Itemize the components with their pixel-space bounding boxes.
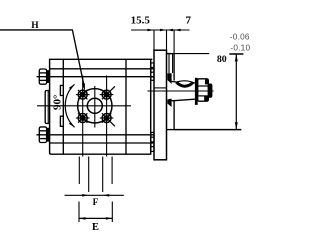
front view: vertical body lines [63,59,126,154]
bolt BR [100,113,115,126]
shaft centerline [148,90,214,92]
front view: pilot circle [78,89,112,123]
washer face [195,78,198,105]
nut chamfer dark corners [204,96,208,101]
svg-text:-0.10: -0.10 [230,42,250,52]
bolt TL [76,90,90,99]
upper hex fitting [39,69,46,84]
side view lower port profile [151,132,154,151]
svg-text:80: 80 [217,54,227,65]
lower hex fitting [39,127,46,143]
E F extension lines [79,157,112,223]
front view: centerlines [37,76,131,157]
H leader line [0,30,84,84]
shaft hidden line upper [154,87,167,89]
front view: body outline [50,59,153,154]
svg-text:15.5: 15.5 [131,15,151,27]
shaft end stub [208,84,212,98]
svg-text:90°: 90° [51,95,63,110]
body inner verticals [168,54,170,73]
dark shaft root upper [167,73,171,84]
F dimension [65,194,124,196]
side view upper port profile [151,63,154,80]
dimension 15.5 and 7 [131,29,190,31]
E dimension [79,217,112,219]
lower port slot [60,116,63,126]
svg-text:F: F [93,197,99,207]
left boss strip [45,91,49,124]
nut [198,79,209,101]
front view: horizontal body lines [36,69,154,143]
svg-text:-0.06: -0.06 [230,31,250,41]
90 deg dimension arc [65,84,74,127]
tapered shaft [172,81,195,100]
woodruff key crescent [176,81,192,83]
side view body step top [167,53,175,55]
dark shaft root lower [167,99,171,108]
80 dimension [167,53,210,55]
svg-text:E: E [92,222,99,233]
side view body right edge [173,54,175,81]
svg-text:7: 7 [186,15,192,27]
front view: shaft bore circle [87,98,102,113]
bolt TR [100,86,115,99]
bolt BL [76,113,90,122]
side view flange plate [154,50,167,160]
upper port slot [60,85,63,95]
